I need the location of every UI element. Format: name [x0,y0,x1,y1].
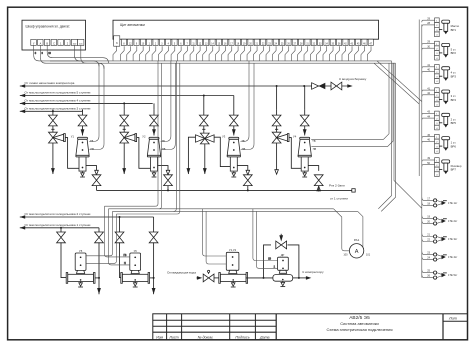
flanged cooler vessel [66,273,95,284]
three-way regulating valve G4 [272,132,281,143]
svg-text:Охлаждающая вода: Охлаждающая вода [167,270,196,274]
svg-text:1ТЕ 2ст: 1ТЕ 2ст [448,219,458,223]
valve stem [52,126,54,133]
wires to vessel У4 (horizontal run) [311,63,389,139]
sensor wires with numbers [423,136,435,138]
inlet valve with stem [203,274,214,282]
svg-text:ГВ: ГВ [124,254,127,257]
temperature sensor ТЕ3 [422,234,434,237]
group G5: right branch with valve [98,228,100,233]
thermo element glyph [437,200,442,202]
junction node and drain arrow [98,277,100,279]
cooler drain [231,282,236,287]
shutoff valve G2.2 (vessel branch) [150,115,159,126]
svg-text:У1: У1 [71,134,75,138]
three-way cross regulating valve G3 [200,133,209,144]
svg-text:N: N [116,42,118,45]
flanged cooler vessel [121,273,150,284]
pressure sensor ВР2 (5 ст.) [435,41,440,46]
pressure transmitter bolt [439,52,442,54]
wires to solenoid box У6 [105,206,130,257]
shutoff valve G2.1 (regulator branch) [120,115,129,126]
pressure sensor ВР4 (3 ст.) [435,88,440,93]
svg-text:От маслоотделителя холодильник: От маслоотделителя холодильника 3 ступен… [25,107,91,111]
pipe junction node [60,227,62,229]
wires to vessel У1 [89,64,99,142]
pipe junction node [276,85,278,87]
pressure transmitter bolt [439,145,442,147]
svg-text:ВР5: ВР5 [451,121,457,125]
actuator arrow on bypass valve [280,234,282,236]
outlet arrow down (regulator) [123,143,125,174]
svg-text:ТВ: ТВ [312,140,316,143]
outlet arrow down (regulator) [52,143,54,174]
three-way regulating valve G1 [49,132,58,143]
oil collector vessel У2 [147,137,160,171]
svg-text:Дата: Дата [259,336,269,340]
thermo element glyph [437,255,442,257]
svg-text:1В: 1В [268,258,271,261]
shutoff valve G4.2 (vessel branch) [300,115,309,126]
valve stem [123,126,125,133]
vessel drain arrow [80,172,85,177]
vessel bottom drain [78,282,83,287]
regulator vessel [273,275,293,282]
pressure sensor ВР3 (4 ст.) [435,65,440,70]
group G4: branch pipe from line [276,86,278,110]
shutoff valve G4.1 (regulator branch) [272,115,281,126]
flow arrow [95,170,99,175]
pipe line: От маслоотделителя холодильника 2 ступени [20,215,25,219]
flow arrow [317,186,321,191]
flow arrow into vessel [153,126,155,136]
regulator drain [280,281,285,286]
valve neck [229,270,237,273]
svg-text:У5: У5 [79,249,83,253]
outlet arrow down (regulator) [276,143,278,174]
pressure sensor ВР1 (Масло) [435,18,440,23]
valve body neck [131,270,139,273]
svg-text:У4: У4 [293,134,297,138]
bus continuation to temperature sensors [394,63,422,277]
svg-text:A: A [355,249,359,255]
pipe line: От маслоотделителя холодильника 4 ступени [20,102,25,106]
junction node and drain arrow [153,277,155,279]
shutoff valve G3.1 [199,115,208,126]
bottom shutoff valve G4.3 [314,175,323,186]
ammeter wire right [358,211,363,247]
left wing outlet with arrow [188,137,195,174]
panel terminal strip [114,36,120,46]
solenoid actuator box У6 [130,253,141,270]
pipe to cooler [214,277,220,279]
cabinet wires with markers [34,45,99,66]
group G5: left branch with valve [60,228,62,233]
svg-text:У1,У2: У1,У2 [229,248,237,252]
three-way regulating valve G2 [120,132,129,143]
svg-text:1ТЕ 3ст: 1ТЕ 3ст [448,237,458,241]
wire bus to pressure sensors [374,63,419,176]
right wing to vessel [214,137,230,166]
svg-text:Изм: Изм [156,336,163,340]
svg-text:ВР4: ВР4 [451,98,457,102]
flow arrow into vessel [304,126,306,136]
shutoff valve G3.2 [229,115,238,126]
wires to box У1,У2 [203,209,227,256]
thermo element glyph [437,218,442,220]
pipe to collector [318,186,320,191]
oil collector vessel У1 [76,137,89,171]
flow arrow [166,170,170,175]
pressure sensor ВР6 (1 ст.) [435,134,440,139]
vessel drain arrow [302,172,307,177]
thermo element glyph [437,273,442,275]
bus feeds from trunk [155,61,158,206]
group G3: branch pipes from line 2 [203,96,205,116]
pipe line: От маслоотделителя холодильника 1 ступени [20,226,25,230]
pipe line: От маслоотделителя холодильника 5 ступени [20,94,25,98]
cabinet box: Шкаф управления эл. двигателями [22,20,86,50]
svg-text:От маслоотделителя холодильник: От маслоотделителя холодильника 1 ступен… [25,223,91,227]
outlet pipe to bottom valve [237,166,248,171]
svg-text:101: 101 [366,253,371,256]
svg-text:ВР2: ВР2 [451,51,457,55]
svg-text:1ТЕ 4ст: 1ТЕ 4ст [448,255,458,259]
pipe junction node [119,216,121,218]
center outlet arrow [204,144,206,174]
vessel drain arrow [152,172,157,177]
sensor wires with numbers [423,19,435,21]
pipe line continuation: К воздухосборнику [304,85,347,87]
thermo element glyph [437,237,442,239]
group G2: branch pipe from line [123,103,125,109]
svg-text:От маслоотделителя холодильник: От маслоотделителя холодильника 5 ступен… [25,91,91,95]
cabinet wires 100 101 to ammeter [75,45,81,61]
arrow to air receiver [347,84,352,88]
pressure regulator box ДР [278,257,289,270]
svg-text:Подпись: Подпись [235,336,249,340]
solenoid actuator box У5 [75,253,86,270]
pipe to collector [167,186,169,191]
svg-text:Схема электрическая подключени: Схема электрическая подключения [327,327,393,332]
svg-text:РА1: РА1 [354,238,360,242]
svg-text:У3: У3 [222,134,226,138]
sensor wires with numbers [423,112,435,114]
svg-text:С: С [53,43,55,46]
ammeter wire left [334,209,350,251]
temperature sensor ТЕ2 [422,215,434,218]
pipe line: От линии нагнетания компрессора [20,84,25,88]
valve stem [276,126,278,133]
oil collector vessel У4 [298,137,311,171]
bottom shutoff valve G2.3 [164,175,173,186]
svg-text:К воздухосборнику: К воздухосборнику [339,77,366,81]
flow arrow into vessel [82,126,84,136]
svg-text:от 1 ступени: от 1 ступени [330,196,348,200]
sensor wires with numbers [423,89,435,91]
wires to vessel У3 [240,61,249,142]
pipe to collector [96,186,98,191]
title block texts [156,317,457,340]
water cooler vessel [219,273,248,284]
outlet pipe to bottom valve [86,166,97,171]
svg-text:НВ: НВ [313,148,317,151]
cabinet terminal strip [31,39,37,45]
pressure transmitter bolt [439,29,442,31]
svg-text:От маслоотделителя холодильник: От маслоотделителя холодильника 4 ступен… [25,99,91,103]
svg-text:Шкаф управления эл. двигат.: Шкаф управления эл. двигат. [26,25,71,29]
svg-text:У2: У2 [142,134,146,138]
temperature sensor ТЕ1 [422,197,434,200]
svg-text:Щит автоматики: Щит автоматики [120,23,145,27]
group G1: branch pipe from line [52,110,54,112]
svg-text:ВР1: ВР1 [451,28,457,32]
svg-text:1ТЕ 5ст: 1ТЕ 5ст [448,273,458,277]
pressure sensor ВР7 (Ресивер) [435,158,440,163]
svg-text:Система автоматики: Система автоматики [340,321,378,326]
temperature sensor ТЕ5 [422,270,434,273]
wires to vessel У2 [161,61,171,142]
collector junction nodes [167,189,169,191]
svg-text:У6: У6 [134,249,138,253]
sensor wires with numbers [423,43,435,45]
connector flag [352,189,355,192]
svg-text:ВР7: ВР7 [451,168,457,172]
check valve on air line [312,83,319,90]
svg-text:От маслоотделителя холодильник: От маслоотделителя холодильника 2 ступен… [25,212,91,216]
svg-text:ВР3: ВР3 [451,75,457,79]
outlet pipe to bottom valve [158,166,169,171]
svg-text:Лист: Лист [168,336,178,340]
shutoff valve G1.1 (regulator branch) [49,115,58,126]
sensor wires with numbers [423,159,435,161]
pressure transmitter bolt [439,75,442,77]
vessel drain arrow [231,172,236,177]
automation panel box: Щит автоматики [113,20,379,39]
svg-text:100: 100 [343,253,348,256]
wire bus horizontals [105,205,156,207]
svg-text:От линии нагнетания компрессор: От линии нагнетания компрессора [25,81,75,85]
vessel bottom drain [133,282,138,287]
pipe junction node [203,95,205,97]
sensor wires with numbers [423,66,435,68]
svg-text:К компрессору: К компрессору [303,270,325,274]
svg-text:Н: Н [124,262,126,265]
pipe junction node [123,102,125,104]
bypass loop with solenoid valve [264,245,272,278]
outlet pipe: К компрессору [293,277,306,279]
regulator neck [279,270,286,273]
svg-text:Ртв 2-3атм: Ртв 2-3атм [329,183,345,187]
collector pipe line (от 1 ступени) [97,189,352,191]
pressure transmitter bolt [439,99,442,101]
pipe line: От маслоотделителя холодильника 3 ступени [20,110,25,114]
shutoff valve G1.2 (vessel branch) [78,115,87,126]
title block (основная надпись) [153,314,468,340]
pilot line to vessel [137,138,151,169]
pilot line to vessel [65,138,79,169]
wire trunk lines [50,60,392,62]
pipe junction node [52,110,54,112]
group G6: right branch with valve [153,217,155,232]
bottom shutoff valve G1.3 [92,175,101,186]
wire fan from panel terminals [120,46,124,61]
svg-text:№ докум.: № докум. [198,336,214,340]
temperature sensor ТЕ4 [422,252,434,255]
shutoff valve on air line [331,82,342,90]
svg-text:АВ2/5 Э5: АВ2/5 Э5 [349,315,370,321]
junction node on line 1 [303,85,305,87]
oil collector vessel У3 [227,137,240,171]
wires to box ДР [253,209,278,261]
pipe cooler to pressure regulator [246,277,273,279]
wires to solenoid box У5 [86,211,113,255]
pilot line to vessel [289,138,301,169]
pressure transmitter bolt [439,168,442,170]
svg-text:1ТЕ 1ст: 1ТЕ 1ст [448,201,458,205]
valve body neck [77,270,85,273]
ammeter PA1 [349,244,363,258]
solenoid actuator box У7 [226,252,239,270]
svg-text:Лит: Лит [448,317,457,321]
svg-text:ДР: ДР [281,253,285,257]
bottom shutoff valve G3.3 [243,175,252,186]
pressure transmitter bolt [439,122,442,124]
group G6: left branch with valve [119,217,121,232]
pressure sensor ВР5 (2 ст.) [435,111,440,116]
outlet pipe to bottom valve [308,166,319,171]
svg-text:ВР6: ВР6 [451,144,457,148]
